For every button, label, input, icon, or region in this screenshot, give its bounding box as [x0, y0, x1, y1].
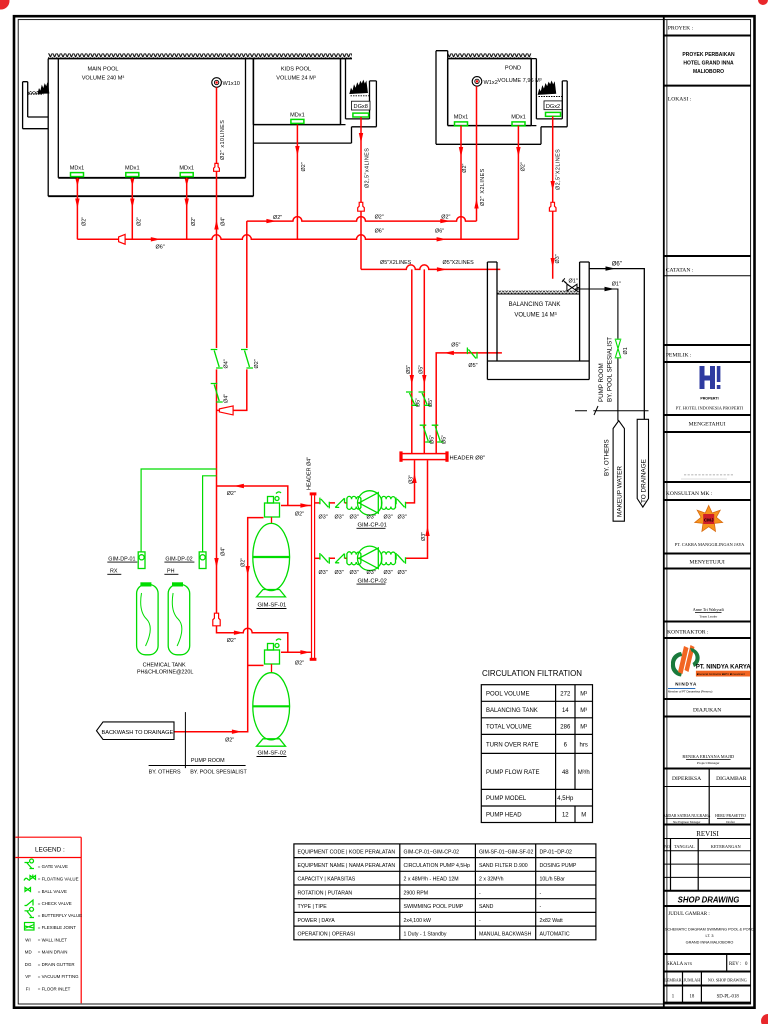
- svg-text:Ø2,5"X2LINES: Ø2,5"X2LINES: [556, 149, 562, 190]
- svg-text:286: 286: [560, 725, 571, 731]
- svg-text:GRAND INNA MALIOBORO: GRAND INNA MALIOBORO: [686, 940, 734, 944]
- svg-text:Ø2": Ø2": [462, 164, 468, 173]
- svg-text:BALANCING TANK: BALANCING TANK: [509, 302, 561, 308]
- arrow backwash down: [246, 566, 250, 576]
- wall inlet symbol W1x10: [212, 78, 240, 88]
- arrow tank suction B down: [422, 375, 426, 385]
- sheet corner mark top-right: [758, 0, 768, 5]
- svg-text:Ø3": Ø3": [398, 515, 407, 521]
- balancing tank water surface hatch: [498, 291, 580, 294]
- svg-text:VOLUME 14 M³: VOLUME 14 M³: [514, 312, 556, 318]
- lembar row values: [672, 995, 740, 1000]
- svg-text:-: -: [540, 904, 542, 910]
- wire SF-01 feed line: [217, 486, 288, 506]
- pump U1 GIM-CP-01: [358, 491, 382, 515]
- svg-text:2 x 32M³/h: 2 x 32M³/h: [479, 877, 504, 883]
- label GIM-CP-01: [357, 523, 387, 529]
- svg-text:Ø5": Ø5": [406, 365, 412, 374]
- wire kids pool MD drop: [296, 125, 298, 240]
- svg-text:Ø2": Ø2": [301, 162, 307, 171]
- svg-text:MAIN POOL: MAIN POOL: [87, 67, 118, 73]
- svg-text:SCHEMATIC DIAGRAM SWIMMING POO: SCHEMATIC DIAGRAM SWIMMING POOL & POND: [665, 928, 754, 932]
- svg-text:M³/h: M³/h: [578, 770, 590, 776]
- reducer on Ø6 manifold: [119, 234, 126, 244]
- kids pool gutter channel: [253, 81, 376, 143]
- suction header Ø8 right cap: [445, 451, 448, 461]
- svg-text:HERU PRASETYO: HERU PRASETYO: [715, 814, 746, 818]
- svg-text:PT. NINDYA KARYA: PT. NINDYA KARYA: [696, 665, 751, 671]
- svg-text:Ø3": Ø3": [367, 515, 376, 521]
- svg-text:Ø3": Ø3": [319, 515, 328, 521]
- filter F1 multiport valve: [265, 492, 282, 523]
- svg-text:Ø4": Ø4": [221, 217, 227, 226]
- svg-text:= BUTTERFLY VALUE: = BUTTERFLY VALUE: [38, 913, 82, 918]
- wire main pool MD2 drop: [131, 178, 133, 240]
- pond gutter hatch mound: [538, 81, 556, 94]
- equipment table text: [298, 849, 577, 937]
- svg-text:1 Duty - 1 Standby: 1 Duty - 1 Standby: [404, 932, 447, 938]
- svg-text:DIPERIKSA: DIPERIKSA: [672, 776, 701, 782]
- svg-text:= WALL INLET: = WALL INLET: [38, 937, 67, 942]
- diajukan signature: [682, 754, 734, 765]
- arrow Ø1 black left: [605, 287, 615, 291]
- svg-text:Ø5": Ø5": [429, 435, 435, 444]
- svg-text:KIDS POOL: KIDS POOL: [281, 67, 311, 73]
- suction header Ø8 left cap: [399, 451, 402, 461]
- arrow kids MD down: [295, 146, 299, 156]
- svg-text:Ø3": Ø3": [335, 515, 344, 521]
- svg-text:hrs: hrs: [580, 742, 588, 748]
- filter header Ø4 vertical double line: [312, 495, 315, 658]
- reducer bell above SF-02 feed corner: [213, 613, 220, 626]
- kids pool right wall: [341, 59, 346, 125]
- arrow MD3 down: [185, 199, 189, 209]
- arrow Ø6 manifold right 2: [437, 237, 447, 241]
- overflow pipe Ø6 black: [589, 269, 644, 420]
- svg-text:Site Engineer Manager: Site Engineer Manager: [673, 820, 701, 824]
- digambar signature: [715, 814, 746, 824]
- svg-text:KONTRAKTOR :: KONTRAKTOR :: [667, 629, 709, 635]
- svg-text:FI: FI: [26, 986, 30, 991]
- valve tank suction B2: [420, 425, 432, 442]
- svg-text:Ø2": Ø2": [191, 217, 197, 226]
- svg-text:BY. POOL SPESIALIST: BY. POOL SPESIALIST: [190, 770, 247, 776]
- svg-text:LT. 3: LT. 3: [706, 934, 714, 938]
- svg-text:GIM-CP-01: GIM-CP-01: [358, 523, 387, 529]
- wire SF-02 outlet to header: [281, 651, 311, 653]
- svg-text:W1x10: W1x10: [223, 81, 240, 87]
- legend flexible joint symbol: [25, 923, 35, 931]
- svg-text:TURN OVER RATE: TURN OVER RATE: [486, 742, 539, 748]
- svg-text:= CHECK VALVE: = CHECK VALVE: [38, 901, 72, 906]
- svg-text:Ø2": Ø2": [82, 217, 88, 226]
- wire suction manifold Ø6: [77, 235, 518, 239]
- svg-text:4,5Hp: 4,5Hp: [557, 796, 574, 802]
- arrow pond DG down: [551, 181, 555, 191]
- svg-text:MDx1: MDx1: [179, 166, 194, 172]
- valve Ø5 horizontal: [467, 348, 477, 359]
- main pool foundation bottom: [48, 195, 253, 197]
- svg-text:Ø3": Ø3": [350, 515, 359, 521]
- pump line2 gate valve out: [396, 553, 405, 564]
- svg-text:MDx1: MDx1: [290, 112, 305, 118]
- filter F2 multiport valve: [265, 639, 282, 673]
- svg-text:ROTATION | PUTARAN: ROTATION | PUTARAN: [298, 890, 353, 896]
- svg-text:DG: DG: [25, 962, 32, 967]
- svg-text:Drafter: Drafter: [726, 820, 735, 824]
- svg-text:Ø2": Ø2": [273, 215, 282, 221]
- svg-text:TYPE | TIPE: TYPE | TIPE: [298, 904, 328, 910]
- arrow SF-01 feed left: [234, 484, 244, 488]
- pump room wall line bottom: [184, 712, 186, 768]
- arrow pond W1x2 up: [474, 199, 478, 209]
- kids pool basin: [253, 59, 340, 125]
- svg-text:SAND FILTER D.900: SAND FILTER D.900: [479, 863, 528, 869]
- svg-text:PH&CHLORINE@220L: PH&CHLORINE@220L: [137, 669, 193, 675]
- project name: [682, 52, 735, 75]
- svg-text:Project Manager: Project Manager: [697, 761, 720, 765]
- wall inlet symbol W1x2: [472, 77, 498, 87]
- drain gutter kids pool DGx8: [352, 101, 371, 117]
- arrow MD1 down: [75, 199, 79, 209]
- svg-text:= VACUUM FITTING: = VACUUM FITTING: [38, 974, 79, 979]
- svg-text:NINDYA: NINDYA: [675, 681, 697, 686]
- svg-text:MANUAL BACKWASH: MANUAL BACKWASH: [479, 932, 532, 938]
- svg-text:1: 1: [672, 995, 675, 1000]
- svg-text:Ø2": Ø2": [521, 162, 527, 171]
- svg-text:MDx1: MDx1: [511, 115, 526, 121]
- svg-text:VOLUME 24 M³: VOLUME 24 M³: [276, 76, 316, 82]
- wire chemical injection GIM-DP-01: [141, 469, 216, 552]
- pump line1 butterfly valve: [320, 498, 329, 509]
- arrow pond MD1 down: [459, 147, 463, 157]
- label GIM-CP-02: [357, 578, 387, 584]
- svg-text:Ø5": Ø5": [416, 398, 422, 407]
- svg-text:DGx8: DGx8: [354, 104, 368, 110]
- svg-text:Ø3": Ø3": [409, 475, 415, 484]
- makeup water banner: [613, 421, 624, 522]
- svg-text:AUTOMATIC: AUTOMATIC: [540, 932, 570, 938]
- svg-text:Ø5": Ø5": [441, 435, 447, 444]
- arrow MD2 floor stub: [130, 179, 134, 187]
- wire tank suction C Ø5: [436, 353, 502, 454]
- wire pond DG drop: [552, 116, 554, 278]
- sheet corner mark bottom-right: [761, 1014, 768, 1024]
- svg-text:Ø5": Ø5": [428, 398, 434, 407]
- svg-text:SKALA :: SKALA :: [667, 962, 686, 967]
- svg-text:Ø2": Ø2": [295, 661, 304, 667]
- main pool floor: [58, 177, 245, 179]
- svg-text:PUMP FLOW RATE: PUMP FLOW RATE: [486, 770, 539, 776]
- equipment table grid: [294, 844, 596, 940]
- arrow pond DG down 2: [551, 258, 555, 268]
- main drain MD3 main pool: [179, 166, 194, 177]
- wire pump 2 line: [330, 460, 428, 558]
- svg-text:= FLEXIBLE JOINT: = FLEXIBLE JOINT: [38, 925, 77, 930]
- wire SF-01 backwash: [174, 518, 264, 732]
- pond basin: [448, 59, 532, 126]
- svg-text:PT. CAKRA MANGGILINGAN JAYA: PT. CAKRA MANGGILINGAN JAYA: [675, 542, 745, 547]
- pump line2 butterfly valve: [320, 553, 329, 564]
- svg-text:DOSING PUMP: DOSING PUMP: [540, 863, 577, 869]
- label GIM-SF-02: [257, 751, 287, 757]
- reducer on merge line: [219, 406, 233, 415]
- svg-text:GIM-DP-02: GIM-DP-02: [165, 556, 192, 562]
- svg-text:Ø2": Ø2": [227, 491, 236, 497]
- arrow Ø6 manifold right: [151, 237, 161, 241]
- konsultan logo CMJ: [695, 506, 723, 532]
- svg-text:12: 12: [562, 813, 569, 819]
- wire tank suction B: [423, 269, 425, 453]
- filter header Ø4 bottom cap: [310, 658, 317, 661]
- svg-text:EQUIPMENT NAME | NAMA PERALATA: EQUIPMENT NAME | NAMA PERALATAN: [298, 863, 396, 869]
- svg-text:JUMLAH: JUMLAH: [684, 977, 701, 982]
- svg-text:SHOP DRAWING: SHOP DRAWING: [678, 896, 740, 905]
- svg-text:M³: M³: [580, 708, 587, 714]
- main drain pond MD2: [511, 115, 526, 126]
- svg-text:Ø2": Ø2": [227, 638, 236, 644]
- legend box: [15, 837, 81, 1003]
- svg-text:POOL VOLUME: POOL VOLUME: [486, 692, 529, 698]
- svg-text:PUMP ROOM: PUMP ROOM: [598, 363, 605, 402]
- balancing tank bottom slab: [487, 361, 589, 380]
- svg-text:Ø3": Ø3": [367, 570, 376, 576]
- arrow backwash toward corner: [232, 730, 242, 734]
- svg-text:-: -: [540, 890, 542, 896]
- svg-text:Ø5": Ø5": [468, 363, 477, 369]
- arrow kids DG down: [359, 133, 363, 143]
- svg-text:GIM-CP-02: GIM-CP-02: [358, 578, 387, 584]
- arrow pump1 discharge up: [412, 473, 416, 483]
- svg-text:Ø5": Ø5": [451, 342, 460, 348]
- svg-text:Ø6": Ø6": [435, 229, 444, 235]
- wire SF-02 backwash branch: [248, 664, 264, 666]
- svg-text:Ø1": Ø1": [569, 279, 578, 285]
- svg-text:= MAIN DRAIN: = MAIN DRAIN: [38, 949, 68, 954]
- wire pump 1 suction: [315, 502, 320, 504]
- svg-text:TO DRAINAGE: TO DRAINAGE: [641, 459, 648, 503]
- svg-text:MAKEUP WATER: MAKEUP WATER: [617, 466, 624, 517]
- wire valve bypass merge: [217, 369, 247, 410]
- legend ball valve symbol: [25, 888, 31, 892]
- wire SF-01 outlet to header: [281, 505, 311, 507]
- wire return main riser lower: [216, 369, 218, 613]
- svg-text:Ø2": Ø2": [225, 738, 234, 744]
- kontraktor logo Nindya: [668, 645, 751, 694]
- svg-text:Ø6": Ø6": [156, 245, 165, 251]
- legend gate valve symbol: [25, 859, 35, 868]
- svg-text:CIRCULATION FILTRATION: CIRCULATION FILTRATION: [482, 669, 582, 678]
- diperiksa signature: [663, 814, 711, 824]
- svg-text:10L/h 5Bar: 10L/h 5Bar: [540, 877, 566, 883]
- svg-text:2x4,100 kW: 2x4,100 kW: [404, 918, 431, 924]
- svg-text:LEGEND :: LEGEND :: [35, 847, 65, 854]
- wire chemical injection GIM-DP-02: [203, 476, 217, 552]
- makeup pipe Ø1 black: [575, 289, 618, 421]
- svg-text:PEMILIK :: PEMILIK :: [666, 353, 692, 359]
- svg-text:NO. SHOP DRAWING: NO. SHOP DRAWING: [708, 977, 747, 982]
- svg-text:= BALL VALVE: = BALL VALVE: [38, 889, 67, 894]
- mengetahui signature dashes: [684, 474, 734, 476]
- svg-text:Ø2": Ø2": [254, 359, 260, 368]
- arrow W1x10 riser up: [214, 220, 218, 230]
- revisi table headers: [664, 844, 741, 849]
- owner logo H!: [700, 366, 721, 401]
- svg-text:RENIKA ERLYANA MAJID: RENIKA ERLYANA MAJID: [682, 754, 734, 759]
- pump line1 flex joint 2: [382, 496, 396, 509]
- arrow Ø6 black left: [606, 266, 616, 270]
- svg-text:M: M: [581, 813, 586, 819]
- pump line1 flex joint 1: [347, 496, 361, 509]
- kids pool gutter water line: [351, 95, 370, 97]
- svg-text:CMJ: CMJ: [704, 518, 714, 523]
- wire tank suction A: [411, 269, 413, 453]
- svg-text:Ø1": Ø1": [612, 282, 621, 288]
- svg-text:REVISI: REVISI: [696, 830, 719, 838]
- wire pond MD1 drop: [460, 126, 462, 240]
- svg-text:Ø4": Ø4": [221, 547, 227, 556]
- svg-text:14: 14: [562, 708, 569, 714]
- valve tank suction A: [406, 392, 418, 405]
- label GIM-DP-02: [164, 556, 194, 574]
- svg-text:PUMP MODEL: PUMP MODEL: [486, 796, 527, 802]
- svg-text:CATATAN :: CATATAN :: [666, 268, 694, 274]
- svg-text:BY. POOL SPESIALIST: BY. POOL SPESIALIST: [607, 337, 614, 402]
- svg-text:48: 48: [562, 770, 569, 776]
- svg-text:PT. HOTEL INDONESIA PROPERTI: PT. HOTEL INDONESIA PROPERTI: [676, 405, 744, 410]
- lembar row headers: [664, 977, 746, 982]
- filter F2 vessel GIM-SF-02: [253, 673, 290, 747]
- wire gutter line Ø5x2lines to balancing tank: [361, 265, 500, 270]
- svg-text:Ø2" x10LINES: Ø2" x10LINES: [220, 120, 226, 160]
- svg-text:Ø2": Ø2": [136, 217, 142, 226]
- dosing pump GIM-DP-02: [199, 552, 206, 569]
- valve tank suction B: [419, 392, 431, 405]
- svg-text:2900 RPM: 2900 RPM: [404, 890, 429, 896]
- arrow Ø2 return right 2: [440, 219, 450, 223]
- float valve Ø1: [562, 278, 580, 291]
- svg-text:CIRCULATION PUMP 4,5Hp: CIRCULATION PUMP 4,5Hp: [404, 863, 471, 869]
- pond gutter channel: [436, 81, 567, 144]
- svg-text:Anne Tri Wahyudi: Anne Tri Wahyudi: [693, 607, 725, 612]
- wire return manifold Ø2: [247, 217, 477, 222]
- arrow MD1 floor stub: [75, 179, 79, 187]
- svg-text:PH: PH: [167, 569, 175, 575]
- svg-text:= FLOATING VALUE: = FLOATING VALUE: [38, 877, 79, 882]
- svg-text:DP-01~DP-02: DP-01~DP-02: [540, 849, 573, 855]
- svg-text:= FLOOR INLET: = FLOOR INLET: [38, 986, 71, 991]
- svg-text:W1x2: W1x2: [484, 80, 498, 86]
- balancing tank walls: [487, 262, 589, 361]
- svg-text:CHEMICAL TANK: CHEMICAL TANK: [143, 662, 186, 668]
- svg-text:Ø3": Ø3": [335, 570, 344, 576]
- pump line1 gate valve out: [396, 498, 405, 509]
- sheet corner mark top-left: [0, 0, 10, 10]
- pond deck ground hatch: [448, 53, 532, 58]
- balancing tank water line: [497, 293, 580, 295]
- arrow SF-02 feed right: [234, 631, 244, 635]
- svg-text:Ø2": Ø2": [295, 512, 304, 518]
- svg-text:Ø2": Ø2": [375, 215, 384, 221]
- pond deck top line: [448, 58, 532, 60]
- wire main pool MD1 drop: [76, 178, 78, 240]
- arrow SF-02 outlet right: [300, 650, 310, 654]
- svg-text:SAND: SAND: [479, 904, 494, 910]
- main pool deck ground hatch: [48, 53, 352, 58]
- svg-text:Ø5"X2LINES: Ø5"X2LINES: [380, 260, 412, 266]
- svg-text:Team Leader: Team Leader: [699, 614, 718, 618]
- svg-text:NO: NO: [664, 845, 670, 849]
- valve tank suction C2: [432, 425, 444, 442]
- arrow pond MD2 down: [516, 147, 520, 157]
- wire pond MD2 drop: [517, 126, 519, 240]
- wire pump 1 line: [330, 460, 415, 503]
- valve Ø4 riser lower: [211, 384, 223, 403]
- main pool left gutter: [23, 82, 49, 129]
- svg-text:HOTEL GRAND INNA: HOTEL GRAND INNA: [683, 61, 734, 67]
- arrow SF-01 outlet right: [300, 503, 310, 507]
- svg-text:Ø2,5"x4LINES: Ø2,5"x4LINES: [365, 148, 371, 188]
- valve Ø2 kids riser: [241, 350, 253, 369]
- svg-text:VF: VF: [25, 974, 31, 979]
- svg-text:NTS: NTS: [685, 962, 693, 966]
- to drainage banner: [637, 419, 648, 507]
- wire kids return riser: [246, 221, 248, 348]
- kids pool gutter hatch mound: [350, 81, 368, 94]
- svg-text:= GATE VALVE: = GATE VALVE: [38, 864, 68, 869]
- pump line2 flex joint 1: [347, 552, 361, 565]
- pump U2 GIM-CP-02: [358, 546, 382, 570]
- svg-text:TANGGAL: TANGGAL: [674, 844, 695, 849]
- svg-text:HEADER Ø4": HEADER Ø4": [306, 457, 312, 490]
- svg-text:Ø3": Ø3": [319, 570, 328, 576]
- svg-text:POND: POND: [505, 66, 521, 72]
- legend check valve symbol: [25, 900, 34, 906]
- svg-text:KETERANGAN: KETERANGAN: [711, 844, 742, 849]
- bell kids DG: [358, 202, 365, 211]
- valve Ø4 riser upper: [211, 350, 223, 369]
- wire return riser W1x10: [216, 87, 218, 348]
- svg-text:BY. OTHERS: BY. OTHERS: [149, 770, 181, 776]
- menyetujui signature: [693, 607, 725, 618]
- svg-text:GIM-SF-02: GIM-SF-02: [258, 751, 287, 757]
- arrow tank suction A down: [410, 375, 414, 385]
- svg-text:GIM-SF-01~GIM-SF-02: GIM-SF-01~GIM-SF-02: [479, 849, 533, 855]
- arrow tank suction C left: [444, 351, 454, 355]
- wire kids pool DG drop: [360, 117, 362, 269]
- svg-text:TOTAL VOLUME: TOTAL VOLUME: [486, 725, 532, 731]
- svg-text:Member of PT Danareksa (Perser: Member of PT Danareksa (Persero): [668, 690, 712, 694]
- svg-text:Ø3": Ø3": [398, 570, 407, 576]
- svg-text:JUDUL GAMBAR :: JUDUL GAMBAR :: [668, 912, 709, 917]
- bell main pool floor penetration: [214, 163, 220, 171]
- svg-text:BY. OTHERS: BY. OTHERS: [604, 439, 611, 476]
- arrow Ø5x2 right: [437, 267, 447, 271]
- svg-text:Ø3": Ø3": [421, 532, 427, 541]
- svg-text:2 x 48M³/h - HEAD 12M: 2 x 48M³/h - HEAD 12M: [404, 877, 459, 883]
- suction header Ø8 bar: [401, 454, 447, 460]
- svg-text:= DRAIN GUTTER: = DRAIN GUTTER: [38, 962, 75, 967]
- svg-text:MENGETAHUI: MENGETAHUI: [689, 422, 726, 428]
- svg-text:Ø3": Ø3": [384, 515, 393, 521]
- svg-text:MD: MD: [25, 949, 32, 954]
- main pool left gutter water line: [28, 91, 43, 94]
- valve makeup Ø1: [615, 339, 622, 358]
- svg-text:HEADER Ø8": HEADER Ø8": [450, 456, 486, 462]
- svg-text:PUMP HEAD: PUMP HEAD: [486, 813, 522, 819]
- pond gutter water line: [539, 96, 562, 98]
- svg-text:Ø6": Ø6": [375, 229, 384, 235]
